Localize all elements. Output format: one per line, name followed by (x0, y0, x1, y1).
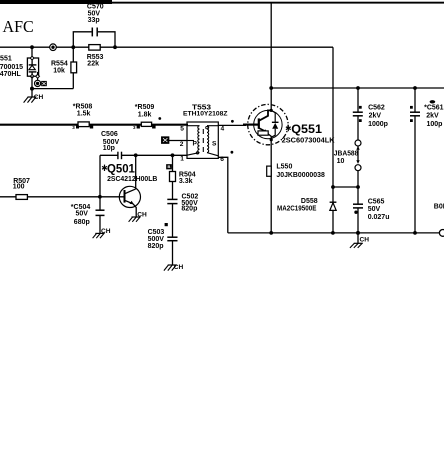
svg-text:1.8k: 1.8k (138, 112, 152, 119)
svg-text:33p: 33p (88, 17, 100, 24)
svg-text:4: 4 (221, 126, 225, 133)
svg-text:CH: CH (137, 211, 147, 218)
svg-text:3.3k: 3.3k (179, 178, 193, 185)
svg-text:J0JKB0000038: J0JKB0000038 (276, 172, 324, 179)
svg-text:CH: CH (101, 228, 111, 235)
svg-text:1000p: 1000p (368, 121, 388, 128)
svg-text:D551: D551 (0, 56, 12, 63)
svg-text:2SC6073004LK: 2SC6073004LK (282, 137, 335, 144)
svg-text:MA2C19500E: MA2C19500E (277, 205, 317, 212)
svg-text:P: P (193, 141, 198, 148)
svg-text:100: 100 (13, 184, 25, 191)
svg-text:B: B (168, 164, 171, 169)
svg-text:50V: 50V (368, 206, 381, 213)
svg-text:22k: 22k (87, 61, 99, 68)
svg-text:*C561: *C561 (424, 105, 444, 112)
svg-text:*R509: *R509 (135, 104, 155, 111)
svg-text:D558: D558 (301, 198, 318, 205)
svg-text:L550: L550 (276, 163, 292, 170)
svg-text:820p: 820p (148, 243, 164, 250)
svg-text:Q501: Q501 (107, 161, 135, 175)
svg-text:C503: C503 (148, 229, 165, 236)
svg-text:AFC: AFC (3, 17, 34, 36)
svg-text:B0L: B0L (434, 204, 444, 211)
svg-text:1.5k: 1.5k (77, 111, 91, 118)
svg-text:CH: CH (360, 237, 370, 244)
svg-text:Q551: Q551 (291, 122, 322, 136)
svg-text:2SC4212H00LB: 2SC4212H00LB (107, 176, 157, 183)
svg-text:6: 6 (220, 156, 224, 163)
svg-text:2kV: 2kV (426, 113, 439, 120)
svg-text:10: 10 (337, 158, 345, 165)
svg-text:ETH10Y2108Z: ETH10Y2108Z (183, 111, 228, 118)
svg-text:10p: 10p (103, 145, 115, 152)
svg-text:10k: 10k (53, 67, 65, 74)
svg-text:2kV: 2kV (369, 113, 382, 120)
svg-text:*R508: *R508 (73, 104, 93, 111)
svg-text:500V: 500V (148, 236, 165, 243)
svg-text:C565: C565 (368, 199, 385, 206)
svg-text:CH: CH (34, 94, 44, 101)
svg-text:820p: 820p (181, 206, 197, 213)
svg-text:0.027u: 0.027u (368, 214, 390, 221)
svg-text:0470HL: 0470HL (0, 71, 21, 78)
svg-text:C562: C562 (368, 105, 385, 112)
svg-text:680p: 680p (74, 219, 90, 226)
svg-text:50V: 50V (76, 211, 89, 218)
svg-text:100p: 100p (427, 121, 443, 128)
svg-text:1: 1 (180, 156, 184, 163)
svg-text:CH: CH (174, 264, 184, 271)
svg-text:JBA588: JBA588 (334, 150, 359, 157)
svg-text:2: 2 (180, 141, 184, 148)
svg-text:5: 5 (180, 126, 184, 133)
svg-text:C506: C506 (101, 131, 118, 138)
svg-text:S: S (212, 141, 217, 148)
